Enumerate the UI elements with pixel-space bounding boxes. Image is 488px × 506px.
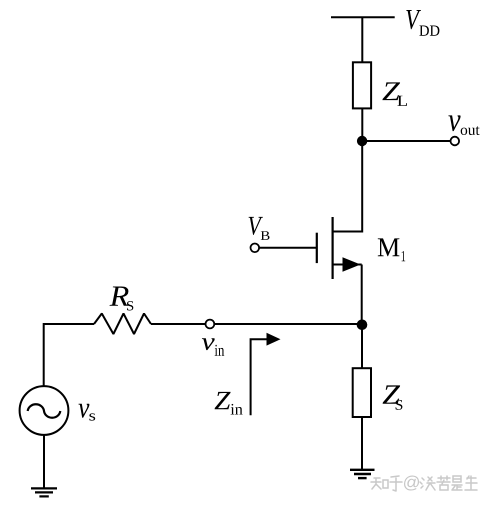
wire Z_L to output node <box>361 109 363 142</box>
wire drain <box>361 141 363 233</box>
wire v_s to ground <box>43 435 45 489</box>
resistor R_S (zigzag) <box>94 314 151 335</box>
impedance Z_S (box) <box>353 368 371 417</box>
node: drain/output junction <box>357 136 367 146</box>
terminal v_in (open circle) <box>206 320 215 329</box>
wire left corner to v_s source <box>44 324 94 386</box>
wire v_in to source junction <box>214 323 362 325</box>
impedance Z_L (box) <box>353 62 371 108</box>
source v_s (AC source circle with sine) <box>20 386 69 435</box>
terminal v_out (open circle) <box>451 137 460 146</box>
label v_s <box>79 404 96 421</box>
ground (left) <box>31 488 57 496</box>
VDD supply rail bar <box>331 16 395 18</box>
wire source to junction <box>361 265 363 326</box>
label v_in <box>202 338 224 355</box>
gate wire <box>259 247 317 249</box>
node: source junction <box>357 320 368 331</box>
wire resistor to v_in <box>151 323 206 325</box>
label v_out <box>448 115 479 135</box>
watermark 知乎 @淡若是生 <box>371 476 477 491</box>
label R_S <box>110 287 134 311</box>
label V_B <box>249 217 270 240</box>
label Z_L <box>382 82 407 106</box>
terminal V_B (open circle) <box>251 244 260 253</box>
wire junction to Z_S <box>361 324 363 368</box>
wire VDD bar to Z_L <box>361 18 363 64</box>
wire node to v_out terminal <box>362 140 451 142</box>
input impedance Z_in indicator (arrow) <box>251 333 281 416</box>
label V_DD <box>406 10 439 36</box>
label M1 <box>378 238 405 261</box>
wire Z_S to ground <box>361 417 363 470</box>
label Z_in <box>215 392 243 415</box>
watermark @ <box>404 476 419 491</box>
transistor M1 (NMOS) <box>317 217 362 279</box>
label Z_S <box>383 385 403 409</box>
ground (right) <box>350 470 375 478</box>
